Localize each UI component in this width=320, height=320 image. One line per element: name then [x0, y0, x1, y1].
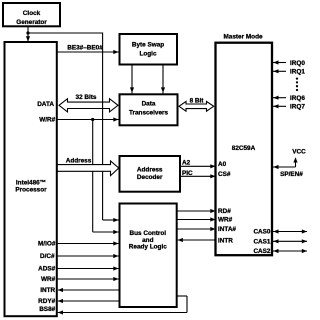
svg-text:RDY#: RDY#	[38, 298, 55, 305]
wire W/R# tap down to bus control logic	[93, 120, 119, 235]
svg-text:CS#: CS#	[218, 171, 231, 178]
wire INTR 82C59A to bus control	[178, 238, 216, 242]
svg-text:Transceivers: Transceivers	[129, 109, 169, 116]
svg-text:Address: Address	[137, 167, 163, 174]
wire ADS# processor to bus control	[57, 266, 119, 270]
svg-text:WR#: WR#	[41, 276, 56, 283]
wire D/C# processor to bus control	[57, 254, 119, 258]
svg-text:RD#: RD#	[218, 208, 231, 215]
svg-text:WR#: WR#	[218, 217, 233, 224]
svg-text:CAS1: CAS1	[253, 238, 270, 245]
byte swap logic box	[120, 34, 178, 65]
svg-text:8 Bit: 8 Bit	[190, 97, 205, 104]
svg-text:Data: Data	[142, 100, 156, 107]
wire RDY# bus control to processor	[58, 299, 120, 303]
svg-text:Ready Logic: Ready Logic	[129, 243, 167, 250]
svg-text:VCC: VCC	[292, 148, 306, 155]
wire CLK from clock generator to processor	[26, 26, 30, 42]
wire BS8# bus control loop to processor	[58, 296, 187, 315]
svg-text:IRQ6: IRQ6	[290, 95, 305, 102]
svg-text:PIC: PIC	[182, 170, 193, 177]
svg-text:IRQ1: IRQ1	[290, 69, 305, 76]
svg-text:Master Mode: Master Mode	[223, 33, 263, 40]
op 82C59A interrupt controller box U1 with pin labels	[216, 33, 273, 255]
clock generator box	[3, 3, 60, 26]
wire SP/EN# tied to VCC	[273, 157, 303, 178]
svg-text:Decoder: Decoder	[137, 174, 163, 181]
pin CAS2 bidirectional	[273, 249, 307, 253]
svg-text:D/C#: D/C#	[40, 253, 55, 260]
data transceivers box	[120, 94, 178, 125]
svg-text:CAS2: CAS2	[253, 248, 270, 255]
svg-text:INTA#: INTA#	[218, 226, 236, 233]
wire byte swap to data transceivers (left)	[130, 65, 134, 94]
power VCC label	[292, 148, 306, 155]
node CLK junction dot	[26, 31, 29, 34]
svg-text:SP/EN#: SP/EN#	[280, 171, 303, 178]
svg-text:Address: Address	[66, 157, 92, 164]
svg-text:A2: A2	[182, 160, 191, 167]
pin CAS0 bidirectional	[273, 229, 307, 233]
node W/R# junction dot	[91, 118, 94, 121]
svg-text:A0: A0	[218, 161, 227, 168]
wire WR# bus control to 82C59A	[177, 217, 216, 221]
pin IRQ7	[273, 104, 305, 111]
svg-text:ADS#: ADS#	[38, 266, 55, 273]
svg-text:INTR: INTR	[218, 237, 233, 244]
svg-text:W/R#: W/R#	[39, 116, 55, 123]
svg-text:Logic: Logic	[139, 51, 156, 58]
wire M/IO# processor to bus control	[57, 241, 119, 245]
wire A2 from address decoder to 82C59A pin A0	[180, 160, 216, 169]
8 Bit bus fat arrow between data transceivers and 82C59A	[179, 97, 214, 111]
svg-text:82C59A: 82C59A	[232, 145, 256, 152]
pin IRQ6	[273, 95, 305, 102]
svg-text:BS8#: BS8#	[39, 306, 55, 313]
pin CAS1 bidirectional	[273, 239, 307, 243]
wire INTR bus control to processor	[58, 288, 120, 292]
svg-text:IRQ0: IRQ0	[290, 60, 305, 67]
svg-text:Clock: Clock	[23, 10, 41, 17]
wire W/R# from processor to data transceivers	[57, 117, 119, 121]
wire BE3#-BE0# from processor to byte swap logic	[57, 45, 119, 55]
32 Bits data bus fat arrow	[59, 94, 118, 112]
pin IRQ0	[273, 60, 305, 67]
Address bus fat arrow from processor to address decoder	[57, 157, 119, 175]
svg-text:Byte Swap: Byte Swap	[132, 42, 164, 49]
svg-text:M/IO#: M/IO#	[38, 241, 56, 248]
svg-text:Intel486™: Intel486™	[16, 180, 46, 187]
wire RD# bus control to 82C59A	[177, 209, 216, 213]
svg-text:CAS0: CAS0	[253, 229, 270, 236]
svg-text:Generator: Generator	[16, 19, 47, 26]
bus control and ready logic box	[120, 204, 177, 308]
wire PIC from address decoder to 82C59A pin CS#	[180, 170, 216, 179]
svg-text:INTR: INTR	[40, 287, 55, 294]
svg-text:IRQ7: IRQ7	[290, 104, 305, 111]
wire byte swap to data transceivers (right)	[161, 65, 165, 94]
pin IRQ1	[273, 69, 305, 76]
address decoder box	[120, 156, 181, 192]
wire WR# processor to bus control	[57, 277, 119, 281]
wire INTA# bus control to 82C59A	[177, 227, 216, 231]
processor U486 Intel486 box with pin labels	[5, 42, 57, 316]
ellipsis dots IRQ2..IRQ5	[296, 77, 298, 91]
svg-text:Processor: Processor	[15, 187, 47, 194]
svg-text:32 Bits: 32 Bits	[76, 94, 97, 101]
wire CLK branch to bus control logic	[28, 33, 119, 223]
svg-text:DATA: DATA	[37, 101, 54, 108]
svg-text:BE3#–BE0#: BE3#–BE0#	[67, 45, 103, 52]
